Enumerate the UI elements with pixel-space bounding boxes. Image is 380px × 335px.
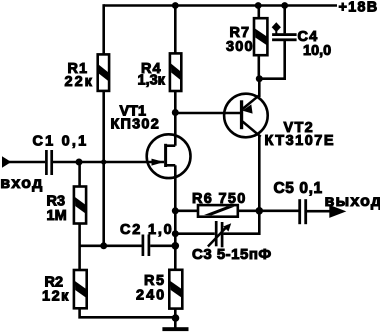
terminal output arrow [329,205,346,218]
wire drain node to VT2 base [175,112,240,115]
node junction dot R7 top on rail [255,2,262,9]
svg-text:C1 0,1: C1 0,1 [33,134,89,150]
node junction dot drain node [172,109,179,116]
resistor R5 [169,270,182,309]
wire VT1 source branch down [174,176,177,270]
resistor R1 [98,54,109,91]
capacitor C3 trimmer [208,221,231,247]
wire C3 right up to collector node [223,211,259,234]
wire node B horizontal to C2 [80,245,142,248]
resistor R7 [254,18,267,55]
capacitor C4 electrolytic [272,22,297,41]
ground [162,327,188,331]
capacitor C1 [46,150,51,175]
wire C4 top [283,6,286,34]
node junction dot gate / R3 top [76,159,83,166]
svg-text:+18В: +18В [339,0,379,16]
capacitor C5 [300,199,306,224]
node junction dot collector output node [255,207,263,215]
wire input to C1 [9,161,45,164]
node junction blob ground wire [172,314,180,322]
wire R2 bottom [80,308,176,317]
wire output to C5 [259,210,298,213]
svg-text:12к: 12к [42,289,70,305]
node small blob at input wire crossing [101,159,106,164]
svg-text:1,3к: 1,3к [138,73,166,89]
svg-text:R3: R3 [47,193,66,209]
resistor R2 [74,270,87,308]
op-amp none / transistor VT1 (JFET KP302) [147,113,191,179]
node junction blob C2 at source branch [172,242,180,250]
node junction dot C3 tap [172,230,179,237]
svg-text:10,0: 10,0 [303,43,331,59]
node junction dot R4 top on rail [172,2,179,9]
node junction dot R6 tap [172,207,179,214]
svg-text:КТ3107Е: КТ3107Е [265,133,336,149]
wire C4 bottom link [259,41,284,79]
node junction dot C4 top on rail [281,2,288,9]
wire R5 bottom to ground [174,309,177,328]
resistor R4 [170,53,181,91]
terminal input arrow [2,156,11,168]
wire R7 bottom [257,55,260,78]
wire R3 top [78,162,81,187]
svg-text:вход: вход [0,175,43,192]
node junction dot R7 C4 bottom [256,75,263,82]
wire R3 bottom to R2 top [78,224,81,271]
wire R6 left [175,210,198,213]
svg-text:22к: 22к [65,74,94,90]
wire R7 top [257,6,260,19]
wire R1 bottom to node B [102,91,105,246]
resistor R6 [198,205,238,217]
wire R1 top [102,4,105,55]
wire C5 to output arrow [307,210,331,213]
transistor VT2 (KT3107E pnp) [224,79,268,138]
svg-text:С3 5-15пФ: С3 5-15пФ [192,246,272,263]
resistor R3 [74,187,86,224]
capacitor C2 [143,235,149,257]
wire R6 right to collector node [238,210,259,213]
wire VT2 collector down [258,136,261,211]
svg-text:КП302: КП302 [111,117,160,133]
node junction dot R1 bottom at node B [100,242,107,249]
svg-text:C2 1,0: C2 1,0 [120,222,174,238]
svg-text:R6 750: R6 750 [192,191,247,207]
svg-text:1М: 1М [47,208,67,224]
svg-text:C5 0,1: C5 0,1 [274,180,323,197]
wire +18V top rail [104,4,337,7]
wire R4 bottom to drain node [174,91,177,113]
wire C2 to source branch [150,245,175,248]
wire C3 left [175,232,215,235]
svg-text:240: 240 [136,288,166,304]
svg-text:300: 300 [226,39,254,55]
wire C1 to VT1 gate [53,161,164,164]
wire R4 top [174,6,177,54]
